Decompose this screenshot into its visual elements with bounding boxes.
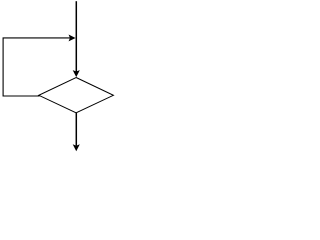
wire: loop-back from diamond left vertex, left, up, right into entry line xyxy=(3,38,70,96)
wire: entry line from top into decision xyxy=(75,1,77,71)
arrowhead: exit arrow pointing down xyxy=(73,144,80,151)
arrowhead: entry line into diamond top vertex xyxy=(73,70,80,77)
arrowhead: loop-back into entry line xyxy=(69,35,76,42)
wire: exit line from diamond bottom vertex xyxy=(75,113,77,146)
decision diamond xyxy=(39,78,114,113)
